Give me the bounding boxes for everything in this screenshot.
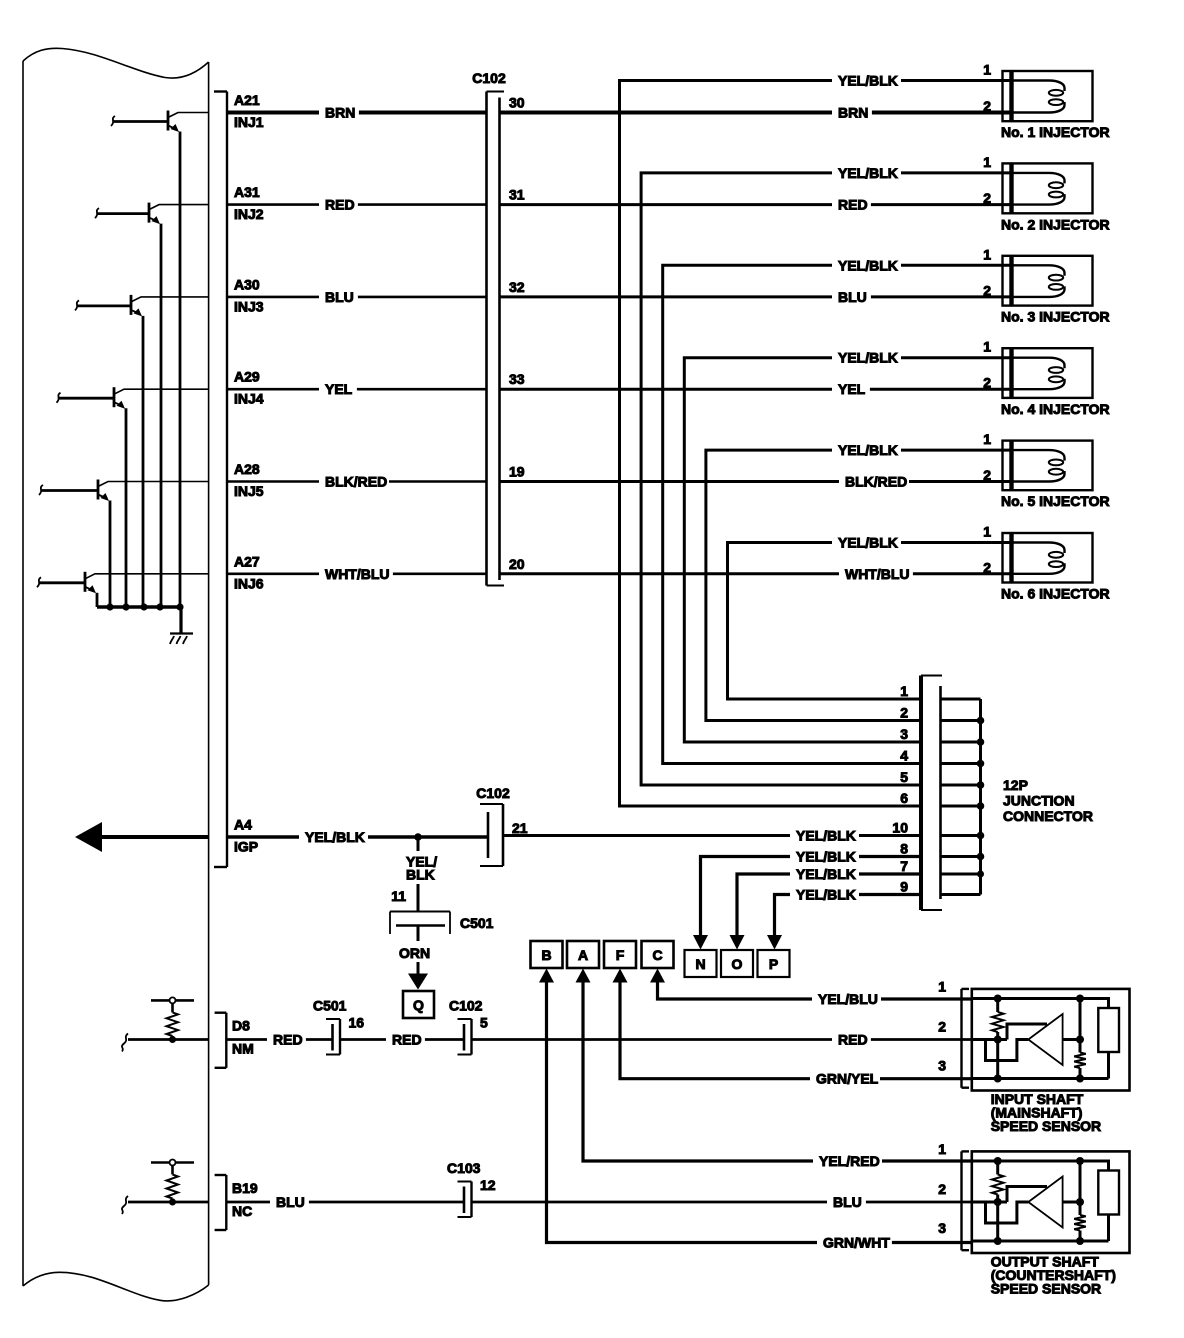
svg-text:2: 2 xyxy=(983,98,991,114)
svg-text:No. 1 INJECTOR: No. 1 INJECTOR xyxy=(1001,124,1110,140)
wire YEL/BLK 12P junction to No.4 injector pin 1 xyxy=(684,350,1012,742)
svg-text:YEL/BLK: YEL/BLK xyxy=(305,829,365,845)
connector C102 pin 21 xyxy=(476,785,528,866)
svg-text:9: 9 xyxy=(900,879,908,895)
svg-text:12P: 12P xyxy=(1003,777,1028,793)
svg-text:21: 21 xyxy=(512,820,528,836)
svg-text:INJ3: INJ3 xyxy=(234,298,264,314)
node D8/NM pin xyxy=(232,1018,254,1057)
svg-text:BRN: BRN xyxy=(325,105,355,121)
connector C103 pin 12 xyxy=(447,1160,496,1217)
box O xyxy=(721,950,753,977)
svg-text:3: 3 xyxy=(938,1058,946,1074)
node A30/INJ3 pin xyxy=(234,276,264,314)
svg-text:WHT/BLU: WHT/BLU xyxy=(845,566,910,582)
output shaft (countershaft) speed sensor label xyxy=(991,1254,1116,1297)
svg-text:2: 2 xyxy=(983,467,991,483)
IGP supply arrow xyxy=(75,822,209,852)
svg-text:SPEED SENSOR: SPEED SENSOR xyxy=(991,1118,1101,1134)
connector C501 pin 16 xyxy=(313,998,364,1055)
ECM bracket D8 xyxy=(215,1013,227,1068)
svg-text:B: B xyxy=(541,947,551,963)
No. 6 injector xyxy=(983,524,1109,602)
ECM torn-paper boundary xyxy=(23,48,209,1301)
svg-text:11: 11 xyxy=(391,888,406,904)
box B xyxy=(531,941,563,968)
connector C501 pin 11 xyxy=(390,912,494,935)
svg-text:YEL/BLK: YEL/BLK xyxy=(838,73,898,89)
No. 4 injector xyxy=(983,339,1109,417)
svg-text:1: 1 xyxy=(900,683,908,699)
input shaft (mainshaft) speed sensor connector bracket xyxy=(962,989,970,1088)
svg-text:2: 2 xyxy=(983,375,991,391)
svg-text:2: 2 xyxy=(938,1181,946,1197)
svg-text:RED: RED xyxy=(273,1032,303,1048)
svg-text:C501: C501 xyxy=(313,998,347,1014)
node A4/IGP pin xyxy=(234,817,258,855)
wire BLK/RED C102 to No.5 injector pin 2 xyxy=(500,474,1013,491)
wire RED C102 to No.2 injector pin 2 xyxy=(500,197,1013,214)
ECM bracket B19 xyxy=(215,1175,227,1230)
input shaft (mainshaft) speed sensor label xyxy=(991,1091,1101,1134)
svg-text:1: 1 xyxy=(983,154,991,170)
box C xyxy=(642,941,674,968)
svg-text:C102: C102 xyxy=(472,70,506,86)
12P junction connector xyxy=(921,676,942,911)
svg-text:BLU: BLU xyxy=(838,289,867,305)
svg-text:3: 3 xyxy=(900,726,908,742)
svg-text:C: C xyxy=(652,947,662,963)
svg-text:INJ2: INJ2 xyxy=(234,206,264,222)
transistor Q2 (INJ2 driver) xyxy=(95,203,209,607)
wire BRN C102 to No.1 injector pin 2 xyxy=(500,105,1013,122)
svg-text:RED: RED xyxy=(392,1032,422,1048)
connector C102 (30-33,19,20 bar) xyxy=(472,70,506,586)
connector C102 pin 5 xyxy=(449,998,488,1055)
ECM connector bracket A-pins xyxy=(214,92,227,868)
output shaft (countershaft) speed sensor internal circuit xyxy=(972,1157,1119,1245)
svg-text:YEL/BLK: YEL/BLK xyxy=(838,442,898,458)
svg-text:BLU: BLU xyxy=(325,289,354,305)
svg-text:BLU: BLU xyxy=(276,1194,305,1210)
svg-text:No. 6 INJECTOR: No. 6 INJECTOR xyxy=(1001,586,1110,602)
svg-text:A31: A31 xyxy=(234,184,260,200)
svg-text:NM: NM xyxy=(232,1041,254,1057)
wire BLU C102 to No.3 injector pin 2 xyxy=(500,289,1013,306)
svg-text:No. 4 INJECTOR: No. 4 INJECTOR xyxy=(1001,401,1110,417)
12P junction connector label xyxy=(1003,777,1093,824)
svg-text:1: 1 xyxy=(983,339,991,355)
svg-text:8: 8 xyxy=(900,841,908,857)
svg-text:1: 1 xyxy=(983,431,991,447)
svg-text:1: 1 xyxy=(938,1141,946,1157)
svg-text:WHT/BLU: WHT/BLU xyxy=(325,566,390,582)
svg-text:33: 33 xyxy=(509,371,525,387)
wire YEL/BLK 12P junction to No.6 injector pin 1 xyxy=(728,535,1013,700)
svg-text:A28: A28 xyxy=(234,461,260,477)
svg-text:JUNCTION: JUNCTION xyxy=(1003,793,1075,809)
svg-text:19: 19 xyxy=(509,464,525,480)
svg-text:YEL/BLK: YEL/BLK xyxy=(838,165,898,181)
svg-text:C102: C102 xyxy=(476,785,510,801)
node A21/INJ1 pin xyxy=(234,92,264,130)
svg-text:5: 5 xyxy=(480,1015,488,1031)
box N xyxy=(685,950,717,977)
wire YEL/BLU input shaft speed sensor pin 1 to box C xyxy=(650,969,972,1008)
node A31/INJ2 pin xyxy=(234,184,264,222)
svg-text:5: 5 xyxy=(900,769,908,785)
No. 1 injector xyxy=(983,62,1109,141)
svg-text:A: A xyxy=(578,947,588,963)
wire YEL/BLK 12P junction to No.2 injector pin 1 xyxy=(641,165,1012,785)
input shaft (mainshaft) speed sensor xyxy=(938,979,1129,1091)
svg-text:3: 3 xyxy=(938,1220,946,1236)
svg-text:IGP: IGP xyxy=(234,839,258,855)
wire ORN C501 to Q xyxy=(399,926,430,990)
svg-text:No. 5 INJECTOR: No. 5 INJECTOR xyxy=(1001,493,1110,509)
svg-text:B19: B19 xyxy=(232,1180,258,1196)
output shaft (countershaft) speed sensor xyxy=(938,1141,1129,1253)
svg-text:Q: Q xyxy=(413,997,424,1013)
wire YEL/BLK 12P junction to No.3 injector pin 1 xyxy=(663,257,1013,763)
box F xyxy=(604,941,636,968)
svg-text:GRN/YEL: GRN/YEL xyxy=(816,1071,879,1087)
svg-text:RED: RED xyxy=(838,197,868,213)
wire YEL/BLK 12P junction to No.1 injector pin 1 xyxy=(620,73,1013,807)
wire YEL/BLK 12P junction to No.5 injector pin 1 xyxy=(706,442,1013,720)
svg-text:P: P xyxy=(769,956,778,972)
svg-text:O: O xyxy=(732,956,743,972)
svg-text:GRN/WHT: GRN/WHT xyxy=(823,1235,890,1251)
svg-text:2: 2 xyxy=(983,282,991,298)
box A xyxy=(567,941,599,968)
wire RED A31 to C102 pin 31 xyxy=(228,187,525,214)
svg-text:BLU: BLU xyxy=(833,1194,862,1210)
svg-text:C501: C501 xyxy=(460,915,494,931)
svg-text:YEL/BLU: YEL/BLU xyxy=(818,991,878,1007)
No. 2 injector xyxy=(983,154,1109,232)
node A28/INJ5 pin xyxy=(234,461,264,499)
output shaft (countershaft) speed sensor connector bracket xyxy=(962,1151,970,1250)
svg-text:YEL/RED: YEL/RED xyxy=(819,1153,880,1169)
svg-text:INJ1: INJ1 xyxy=(234,114,264,130)
wire RED C102-5 to input shaft speed sensor pin 2 xyxy=(472,1032,972,1049)
wire YEL/BLK 12P junction pin 7 to box O xyxy=(730,866,920,950)
svg-text:BRN: BRN xyxy=(838,105,868,121)
resistor pull-up at D8/NM xyxy=(122,997,209,1051)
svg-text:2: 2 xyxy=(983,190,991,206)
svg-text:BLK/RED: BLK/RED xyxy=(325,474,387,490)
svg-text:2: 2 xyxy=(938,1019,946,1035)
wire BRN A21 to C102 pin 30 xyxy=(228,95,525,122)
wire BLU C103-12 to output shaft speed sensor pin 2 xyxy=(472,1194,972,1211)
svg-text:C102: C102 xyxy=(449,998,483,1014)
svg-text:N: N xyxy=(695,956,705,972)
node A27/INJ6 pin xyxy=(234,553,264,591)
No. 3 injector xyxy=(983,246,1109,324)
transistor Q5 (INJ5 driver) xyxy=(39,480,209,608)
svg-text:A29: A29 xyxy=(234,369,260,385)
svg-text:D8: D8 xyxy=(232,1018,250,1034)
wire YEL/BLK drop to C501 pin 11 xyxy=(391,840,437,912)
svg-text:C103: C103 xyxy=(447,1160,481,1176)
wire YEL/RED output shaft speed sensor pin 1 to box A xyxy=(576,969,972,1170)
wire WHT/BLU A27 to C102 pin 20 xyxy=(228,556,525,583)
No. 5 injector xyxy=(983,431,1109,509)
svg-text:2: 2 xyxy=(900,705,908,721)
svg-text:INJ5: INJ5 xyxy=(234,483,264,499)
svg-text:7: 7 xyxy=(900,858,908,874)
wire YEL A29 to C102 pin 33 xyxy=(228,371,525,398)
svg-text:RED: RED xyxy=(325,197,355,213)
svg-text:CONNECTOR: CONNECTOR xyxy=(1003,808,1093,824)
svg-text:12: 12 xyxy=(480,1177,496,1193)
node B19/NC pin xyxy=(232,1180,258,1219)
transistor Q4 (INJ4 driver) xyxy=(57,387,209,607)
node A29/INJ4 pin xyxy=(234,369,264,407)
wire YEL/BLK C102-21 to 12P junction pin 10 xyxy=(503,828,919,845)
svg-text:INJ4: INJ4 xyxy=(234,391,264,407)
wire RED C501-16 to C102 pin 5 xyxy=(340,1032,464,1049)
ground xyxy=(170,634,193,645)
wire GRN/WHT output shaft speed sensor pin 3 to box B xyxy=(539,969,972,1252)
svg-text:A4: A4 xyxy=(234,817,252,833)
wire YEL C102 to No.4 injector pin 2 xyxy=(500,381,1013,398)
svg-text:1: 1 xyxy=(983,62,991,78)
svg-text:YEL/BLK: YEL/BLK xyxy=(796,828,856,844)
ground bus of injector drivers xyxy=(97,603,184,633)
wire RED D8 to C501 pin 16 xyxy=(228,1032,333,1049)
svg-text:F: F xyxy=(616,947,625,963)
svg-text:2: 2 xyxy=(983,559,991,575)
svg-text:SPEED SENSOR: SPEED SENSOR xyxy=(991,1281,1101,1297)
svg-text:16: 16 xyxy=(349,1015,365,1031)
svg-text:1: 1 xyxy=(983,524,991,540)
svg-text:10: 10 xyxy=(892,820,908,836)
svg-text:No. 2 INJECTOR: No. 2 INJECTOR xyxy=(1001,216,1110,232)
wire GRN/YEL input shaft speed sensor pin 3 to box F xyxy=(613,969,972,1088)
svg-text:YEL/BLK: YEL/BLK xyxy=(838,535,898,551)
svg-text:A21: A21 xyxy=(234,92,260,108)
svg-text:20: 20 xyxy=(509,556,525,572)
wire WHT/BLU C102 to No.6 injector pin 2 xyxy=(500,566,1013,583)
svg-text:YEL/BLK: YEL/BLK xyxy=(838,350,898,366)
svg-text:BLK/RED: BLK/RED xyxy=(845,474,907,490)
wire BLU A30 to C102 pin 32 xyxy=(228,279,525,306)
wire BLK/RED A28 to C102 pin 19 xyxy=(228,464,525,491)
svg-text:1: 1 xyxy=(938,979,946,995)
wire YEL/BLK A4 to C102 pin 21 xyxy=(228,829,488,846)
box Q xyxy=(403,991,434,1018)
12P junction bus xyxy=(892,683,984,895)
svg-text:YEL/BLK: YEL/BLK xyxy=(796,887,856,903)
transistor Q3 (INJ3 driver) xyxy=(75,295,209,607)
svg-text:NC: NC xyxy=(232,1203,252,1219)
svg-text:INJ6: INJ6 xyxy=(234,575,264,591)
svg-text:A30: A30 xyxy=(234,276,260,292)
svg-text:6: 6 xyxy=(900,790,908,806)
transistor Q6 (INJ6 driver) xyxy=(37,572,209,607)
wire BLU B19 to C103 pin 12 xyxy=(228,1194,464,1211)
svg-text:1: 1 xyxy=(983,246,991,262)
wire YEL/BLK 12P junction pin 8 to box N xyxy=(693,849,919,950)
box P xyxy=(758,950,790,977)
wire YEL/BLK 12P junction pin 9 to box P xyxy=(767,887,919,950)
svg-text:31: 31 xyxy=(509,187,525,203)
input shaft (mainshaft) speed sensor internal circuit xyxy=(972,995,1119,1083)
svg-text:BLK: BLK xyxy=(406,867,435,883)
transistor Q1 (INJ1 driver) xyxy=(111,111,209,608)
svg-text:YEL: YEL xyxy=(325,381,353,397)
svg-text:YEL/BLK: YEL/BLK xyxy=(838,257,898,273)
svg-text:30: 30 xyxy=(509,95,525,111)
svg-text:No. 3 INJECTOR: No. 3 INJECTOR xyxy=(1001,309,1110,325)
resistor pull-up at B19/NC xyxy=(122,1160,209,1215)
svg-text:4: 4 xyxy=(900,748,908,764)
svg-text:RED: RED xyxy=(838,1032,868,1048)
svg-text:A27: A27 xyxy=(234,553,260,569)
svg-text:32: 32 xyxy=(509,279,525,295)
svg-text:YEL/BLK: YEL/BLK xyxy=(796,849,856,865)
svg-text:YEL/BLK: YEL/BLK xyxy=(796,866,856,882)
svg-text:YEL: YEL xyxy=(838,381,866,397)
svg-text:ORN: ORN xyxy=(399,945,430,961)
